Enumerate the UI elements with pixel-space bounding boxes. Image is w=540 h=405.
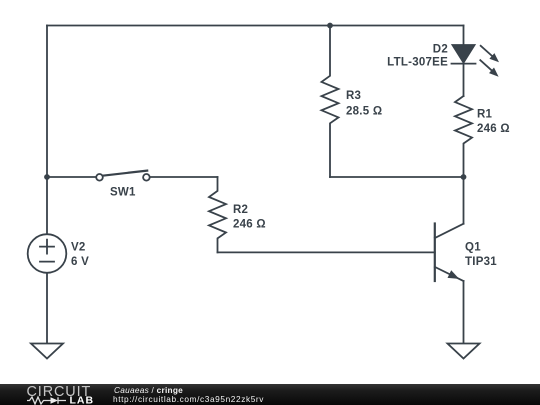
ground (right)	[448, 344, 480, 359]
node junction top rail / R3	[327, 23, 333, 29]
svg-text:6 V: 6 V	[71, 256, 89, 268]
wire V2 bottom to ground	[46, 273, 48, 344]
footer credit text	[114, 385, 183, 395]
wire D2 cathode to R1	[463, 64, 465, 96]
wire left rail to SW1	[47, 176, 96, 178]
svg-text:246 Ω: 246 Ω	[477, 123, 510, 135]
svg-text:Q1: Q1	[465, 241, 481, 253]
svg-text:LAB: LAB	[70, 394, 95, 405]
wire top rail	[47, 25, 464, 27]
svg-text:R3: R3	[346, 90, 361, 102]
resistor R1	[455, 96, 472, 177]
svg-text:TIP31: TIP31	[465, 256, 497, 268]
resistor R2	[209, 177, 226, 252]
wire SW1 to R2	[150, 176, 218, 178]
wire left rail	[46, 26, 48, 235]
svg-text:SW1: SW1	[110, 187, 136, 199]
CircuitLab logo	[0, 384, 110, 405]
wire R3 bottom rail	[330, 176, 464, 178]
LED D2	[452, 45, 500, 77]
svg-text:LTL-307EE: LTL-307EE	[387, 56, 448, 68]
svg-text:28.5 Ω: 28.5 Ω	[346, 105, 382, 117]
node junction R3 rail / collector	[461, 174, 467, 180]
svg-text:R2: R2	[233, 204, 248, 216]
voltage source V2	[28, 234, 67, 273]
svg-text:V2: V2	[71, 241, 86, 253]
wire top rail to D2 anode	[463, 26, 465, 46]
node junction left rail / switch	[44, 174, 50, 180]
transistor Q1	[435, 224, 464, 282]
switch SW1	[96, 171, 150, 181]
svg-text:D2: D2	[433, 44, 448, 56]
wire R1 to Q1 collector	[463, 177, 465, 224]
wire Q1 emitter to ground	[463, 281, 465, 344]
svg-text:R1: R1	[477, 109, 493, 121]
wire R2 to Q1 base	[218, 251, 435, 253]
resistor R3	[322, 26, 339, 178]
footer url text	[113, 394, 264, 404]
footer bar	[0, 384, 540, 405]
svg-text:246 Ω: 246 Ω	[233, 218, 266, 230]
ground (left)	[31, 344, 63, 359]
